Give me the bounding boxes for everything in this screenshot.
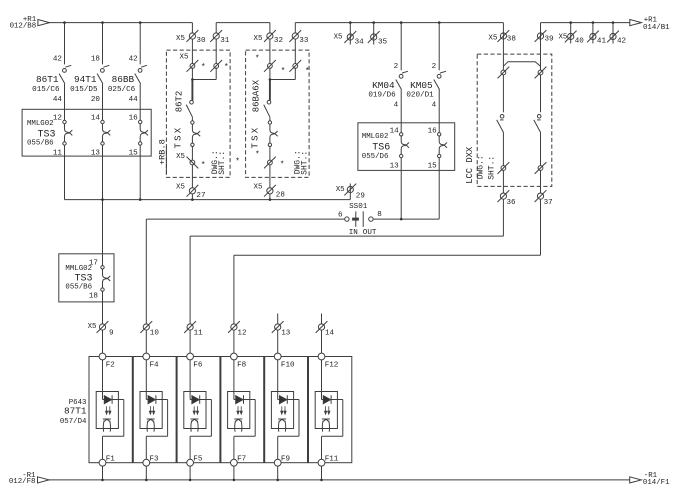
svg-text:34: 34 — [355, 39, 365, 47]
svg-text:12: 12 — [237, 329, 247, 337]
svg-text:*: * — [201, 161, 206, 170]
svg-text:F7: F7 — [237, 455, 246, 463]
svg-text:33: 33 — [299, 37, 309, 45]
svg-text:*: * — [224, 63, 229, 72]
svg-text:F4: F4 — [150, 361, 160, 369]
svg-text:KM04: KM04 — [372, 80, 395, 91]
svg-text:X5: X5 — [176, 184, 185, 192]
svg-text:10: 10 — [150, 329, 160, 337]
svg-text:86BA6X: 86BA6X — [252, 79, 262, 112]
svg-text:86T1: 86T1 — [36, 74, 59, 85]
svg-text:31: 31 — [220, 37, 230, 45]
svg-text:29: 29 — [356, 193, 366, 201]
svg-text:86BB: 86BB — [112, 74, 135, 85]
svg-text:SS01: SS01 — [349, 203, 368, 211]
svg-text:18: 18 — [91, 55, 101, 63]
svg-text:025/C6: 025/C6 — [108, 86, 136, 94]
svg-text:F1: F1 — [106, 455, 116, 463]
svg-text:4: 4 — [394, 102, 399, 110]
svg-text:37: 37 — [544, 199, 553, 207]
svg-text:14: 14 — [325, 329, 335, 337]
svg-text:X5: X5 — [254, 184, 263, 192]
svg-text:014/F1: 014/F1 — [643, 479, 670, 487]
svg-text:14: 14 — [390, 127, 400, 135]
svg-text:F11: F11 — [325, 455, 339, 463]
svg-text:44: 44 — [129, 96, 139, 104]
svg-text:32: 32 — [274, 37, 284, 45]
svg-text:11: 11 — [53, 149, 63, 157]
svg-text:28: 28 — [276, 191, 286, 199]
svg-text:014/B1: 014/B1 — [643, 24, 670, 32]
svg-text:MMLG02: MMLG02 — [65, 265, 92, 273]
svg-text:F10: F10 — [281, 361, 295, 369]
svg-text:8: 8 — [377, 211, 382, 219]
svg-text:DWG.:: DWG.: — [477, 155, 486, 179]
svg-text:35: 35 — [378, 39, 388, 47]
svg-text:MMLG02: MMLG02 — [27, 120, 54, 128]
svg-text:42: 42 — [129, 55, 139, 63]
svg-text:015/C6: 015/C6 — [32, 86, 60, 94]
svg-text:36: 36 — [507, 199, 517, 207]
svg-text:X5: X5 — [334, 34, 343, 42]
svg-text:012/B8: 012/B8 — [10, 23, 37, 31]
svg-text:F9: F9 — [281, 455, 291, 463]
svg-text:44: 44 — [53, 96, 63, 104]
svg-text:18: 18 — [89, 293, 99, 301]
svg-text:*: * — [280, 160, 285, 169]
svg-text:2: 2 — [394, 63, 399, 71]
svg-text:41: 41 — [597, 38, 607, 46]
svg-text:87T1: 87T1 — [64, 406, 87, 417]
svg-text:11: 11 — [194, 329, 204, 337]
svg-text:MMLG02: MMLG02 — [362, 133, 389, 141]
svg-text:27: 27 — [196, 192, 205, 200]
svg-text:+RB.8: +RB.8 — [157, 139, 167, 165]
svg-text:X5: X5 — [254, 35, 263, 43]
svg-text:F6: F6 — [193, 361, 203, 369]
svg-text:055/D6: 055/D6 — [362, 153, 389, 161]
svg-text:*: * — [235, 157, 240, 166]
svg-text:SHT.:: SHT.: — [488, 156, 497, 180]
svg-text:12: 12 — [53, 115, 63, 123]
svg-text:*: * — [255, 150, 260, 159]
svg-text:X5: X5 — [488, 35, 498, 43]
svg-text:*: * — [305, 67, 310, 76]
svg-text:40: 40 — [575, 38, 585, 46]
svg-text:F2: F2 — [106, 361, 116, 369]
svg-text:42: 42 — [617, 38, 627, 46]
svg-text:16: 16 — [428, 127, 438, 135]
svg-text:38: 38 — [507, 36, 517, 44]
svg-text:9: 9 — [109, 329, 114, 337]
svg-text:019/D6: 019/D6 — [368, 92, 396, 100]
svg-text:13: 13 — [91, 149, 101, 157]
svg-text:15: 15 — [428, 163, 438, 171]
svg-text:15: 15 — [129, 149, 139, 157]
svg-text:X5: X5 — [180, 54, 189, 62]
svg-text:057/D4: 057/D4 — [60, 418, 87, 426]
svg-text:F8: F8 — [237, 361, 247, 369]
svg-text:*: * — [281, 67, 286, 76]
svg-text:X5: X5 — [336, 186, 345, 194]
svg-text:*: * — [201, 63, 206, 72]
svg-text:14: 14 — [91, 115, 101, 123]
svg-text:X5: X5 — [176, 153, 185, 161]
svg-text:94T1: 94T1 — [74, 74, 97, 85]
svg-text:012/F8: 012/F8 — [9, 478, 36, 486]
svg-text:055/B6: 055/B6 — [65, 283, 92, 291]
svg-text:015/D5: 015/D5 — [70, 86, 98, 94]
svg-text:020/D1: 020/D1 — [406, 92, 434, 100]
svg-text:F3: F3 — [150, 455, 160, 463]
svg-text:SHT.:: SHT.: — [218, 151, 227, 175]
svg-text:X5: X5 — [176, 35, 185, 43]
svg-text:20: 20 — [91, 96, 101, 104]
svg-text:42: 42 — [53, 55, 63, 63]
svg-text:16: 16 — [129, 115, 139, 123]
svg-text:X5: X5 — [88, 323, 97, 331]
svg-text:KM05: KM05 — [410, 80, 433, 91]
svg-text:LCC DXX: LCC DXX — [465, 146, 475, 184]
svg-text:*: * — [255, 55, 260, 64]
svg-text:13: 13 — [390, 163, 400, 171]
svg-text:4: 4 — [432, 102, 437, 110]
svg-text:86T2: 86T2 — [174, 91, 184, 113]
svg-text:TSX: TSX — [251, 126, 261, 149]
svg-text:055/B6: 055/B6 — [27, 139, 54, 147]
svg-text:13: 13 — [281, 329, 291, 337]
svg-text:39: 39 — [545, 36, 555, 44]
svg-text:SHT.:: SHT.: — [301, 151, 310, 175]
svg-text:30: 30 — [196, 37, 206, 45]
svg-text:2: 2 — [432, 63, 437, 71]
svg-text:TSX: TSX — [173, 126, 183, 149]
svg-text:F12: F12 — [325, 361, 339, 369]
svg-text:6: 6 — [338, 211, 343, 219]
svg-text:F5: F5 — [193, 455, 203, 463]
